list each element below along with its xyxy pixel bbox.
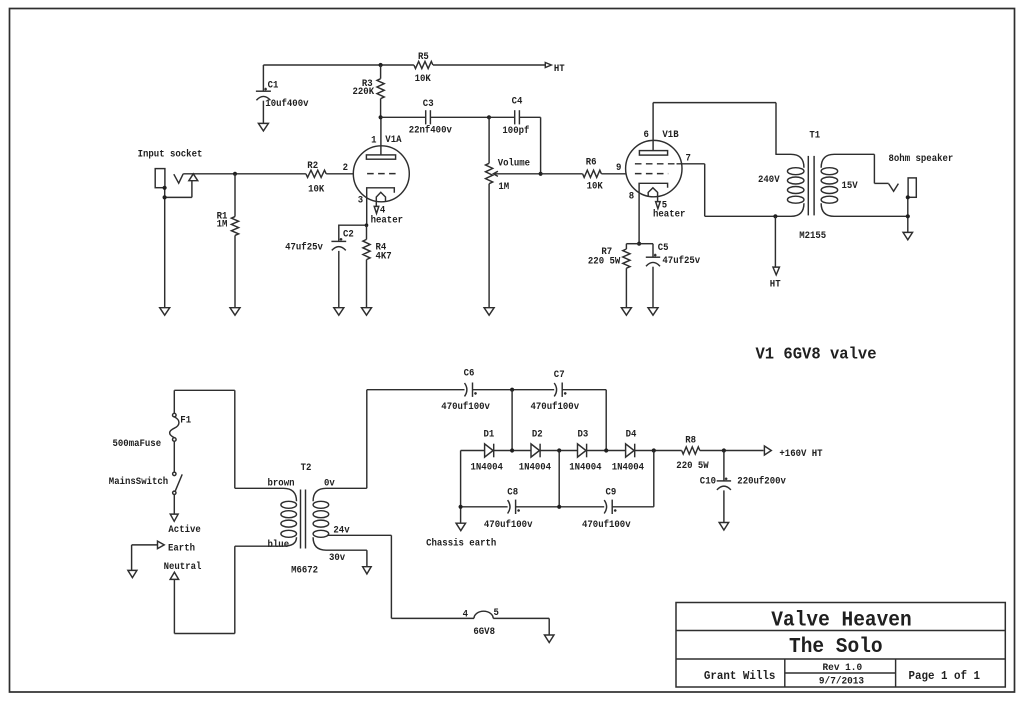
wire C7 right [562, 390, 606, 451]
svg-text:blue: blue [268, 539, 290, 551]
label Neutral [164, 561, 202, 573]
label 15V [842, 180, 859, 192]
svg-text:4K7: 4K7 [376, 251, 392, 263]
svg-text:7: 7 [686, 153, 691, 165]
V1B control grid [635, 173, 668, 175]
wire R2 to V1A grid [326, 173, 353, 175]
svg-text:F1: F1 [180, 415, 191, 427]
label Rev 1.0 [823, 662, 863, 674]
ground C1 [258, 123, 268, 130]
V1B heater filament [648, 188, 657, 202]
svg-text:470uf100v: 470uf100v [531, 401, 580, 413]
svg-text:8: 8 [629, 190, 634, 202]
label C2 [285, 229, 354, 254]
svg-text:HT: HT [554, 63, 565, 75]
node rail-R3 junction [379, 63, 383, 67]
svg-text:Grant Wills: Grant Wills [704, 670, 776, 683]
svg-text:30v: 30v [329, 552, 346, 564]
label C5 [658, 242, 701, 267]
fuse F1 [170, 413, 179, 441]
svg-text:Chassis earth: Chassis earth [426, 538, 496, 550]
resistor R5 [414, 61, 433, 68]
wire 24v tap [327, 535, 391, 618]
svg-text:D2: D2 [532, 428, 543, 440]
node D2-D3 junction [557, 448, 561, 452]
svg-text:T2: T2 [301, 462, 312, 474]
svg-text:22nf400v: 22nf400v [409, 125, 453, 137]
label R5 [415, 51, 432, 85]
wire D4-R8 [635, 450, 682, 452]
node C10 junction [722, 448, 726, 452]
node T1 primary bottom junction [773, 214, 777, 218]
capacitor C9 [604, 500, 616, 514]
capacitor C1 [256, 65, 271, 123]
resistor R1 [231, 174, 238, 308]
label Input socket [138, 148, 203, 160]
terminator Earth arrow [158, 541, 165, 549]
resistor R2 [306, 170, 326, 177]
wire C8 row left [461, 506, 508, 508]
svg-text:The Solo: The Solo [789, 636, 883, 659]
label 30v [329, 552, 346, 564]
V1A cathode [367, 188, 395, 225]
resistor R6 [583, 170, 602, 177]
node speaker return junction [906, 214, 910, 218]
potentiometer Volume [486, 117, 493, 307]
svg-text:C4: C4 [512, 96, 523, 108]
resistor R3 [377, 65, 384, 117]
wire C3 line [381, 116, 489, 118]
label T2 [301, 462, 312, 474]
ground R1 [230, 308, 240, 316]
wire C8C9 drop [558, 451, 560, 507]
label pin5 [494, 607, 499, 619]
svg-text:D4: D4 [626, 428, 637, 440]
V1B screen grid [635, 163, 677, 165]
label R8 [676, 434, 709, 472]
svg-text:6: 6 [644, 129, 649, 141]
svg-text:D1: D1 [484, 428, 495, 440]
svg-text:D3: D3 [578, 428, 589, 440]
label Page 1 of 1 [909, 670, 981, 683]
T1 primary winding 240V [775, 154, 804, 216]
node C8-C9 junction [557, 505, 561, 509]
terminator Active [170, 514, 178, 521]
label R7 [588, 246, 621, 267]
wire 0v to C6 [367, 389, 465, 391]
switch MainsSwitch [173, 472, 183, 494]
node speaker jack sleeve [906, 195, 910, 199]
input jack J1 [155, 169, 198, 308]
wire C9 right [612, 506, 654, 508]
title Valve Heaven [771, 610, 911, 633]
wire 30v stub [366, 550, 368, 567]
label Volume [498, 157, 530, 192]
svg-text:10K: 10K [415, 73, 432, 85]
label 6GV8 [473, 626, 495, 638]
node C8 left junction [459, 505, 463, 509]
svg-text:47uf25v: 47uf25v [285, 241, 323, 253]
wire D1-D2 [494, 450, 531, 452]
svg-text:HT: HT [770, 279, 781, 291]
svg-text:C3: C3 [423, 98, 434, 110]
terminator HT arrow top [545, 63, 551, 68]
svg-text:Earth: Earth [168, 543, 195, 555]
wire HT rail [263, 64, 545, 66]
wire wiper to R6 [541, 173, 583, 175]
label M6672 [291, 565, 318, 577]
T1 core [808, 156, 814, 216]
wire signal input [183, 173, 306, 175]
wire mains top [174, 390, 235, 413]
ground speaker [903, 232, 913, 239]
svg-text:1M: 1M [498, 181, 509, 193]
terminator +160V HT arrow [764, 446, 771, 455]
label V1B heater [653, 209, 685, 221]
terminator HT arrow down [773, 267, 780, 275]
label pin4 [463, 609, 468, 621]
svg-text:220 5W: 220 5W [588, 255, 621, 267]
svg-text:C6: C6 [464, 367, 475, 379]
label Chassis earth [426, 538, 496, 550]
wire earth [132, 545, 158, 571]
svg-text:47uf25v: 47uf25v [662, 255, 700, 267]
svg-text:500maFuse: 500maFuse [113, 438, 162, 450]
wire heater run right [493, 618, 549, 635]
label V1 6GV8 valve [756, 345, 877, 364]
ground input jack [160, 308, 170, 316]
svg-text:V1B: V1B [662, 129, 679, 141]
svg-text:1N4004: 1N4004 [569, 462, 601, 474]
svg-text:Input socket: Input socket [138, 148, 203, 160]
label R1 [217, 211, 228, 231]
wire switch to Active [173, 495, 175, 515]
wire C8-C9 [516, 506, 605, 508]
svg-text:220K: 220K [353, 86, 375, 98]
label T1 [809, 130, 820, 142]
svg-text:M6672: M6672 [291, 565, 318, 577]
label blue [268, 539, 290, 551]
V1B cathode [639, 183, 668, 243]
svg-text:1M: 1M [217, 219, 228, 231]
resistor R4 [363, 225, 370, 308]
node D1-D2 junction [510, 448, 514, 452]
wire C6C7 drop [511, 390, 513, 451]
label MainsSwitch [109, 476, 168, 488]
svg-text:C7: C7 [554, 369, 565, 381]
T1 secondary winding 15V [821, 154, 908, 216]
svg-text:240V: 240V [758, 174, 780, 186]
label 500maFuse [113, 438, 162, 450]
pentode V1B envelope [626, 140, 682, 196]
svg-text:V1 6GV8 valve: V1 6GV8 valve [756, 345, 877, 364]
label HT top [554, 63, 565, 75]
wire heater run left [391, 617, 474, 619]
wire D3-D4 [587, 450, 626, 452]
wire 0v riser [366, 390, 368, 489]
svg-text:470uf100v: 470uf100v [582, 519, 631, 531]
wire fuse to switch [173, 441, 175, 472]
diode D1 [485, 444, 494, 458]
V1A anode plate [366, 117, 395, 159]
svg-text:T1: T1 [809, 130, 820, 142]
triode V1A envelope [353, 146, 409, 202]
svg-text:C9: C9 [606, 486, 617, 498]
heater 6GV8 pins 4-5 [474, 611, 493, 618]
node jack sleeve [163, 186, 167, 190]
wire R6 to V1B grid [601, 173, 625, 175]
node D3-D4 junction [604, 448, 608, 452]
svg-text:C5: C5 [658, 242, 669, 254]
svg-text:M2155: M2155 [799, 230, 826, 242]
svg-text:1N4004: 1N4004 [519, 462, 551, 474]
label C3 [409, 98, 453, 137]
svg-text:1N4004: 1N4004 [471, 462, 503, 474]
svg-text:6GV8: 6GV8 [473, 626, 495, 638]
svg-text:100pf: 100pf [502, 125, 529, 137]
svg-text:1N4004: 1N4004 [612, 462, 644, 474]
label M2155 [799, 230, 826, 242]
node C3-C4-pot junction [487, 115, 491, 119]
ground Volume [484, 308, 494, 316]
label Active [168, 524, 200, 536]
resistor R8 [682, 447, 700, 454]
wire HT feed [774, 216, 776, 267]
T2 primary winding [235, 488, 297, 546]
diode D4 [626, 444, 635, 458]
svg-text:heater: heater [653, 209, 685, 221]
label C6 [441, 367, 490, 413]
label C4 [502, 96, 529, 138]
svg-text:+160V HT: +160V HT [779, 448, 822, 460]
svg-text:10uf400v: 10uf400v [265, 98, 309, 110]
V1A grid [367, 173, 396, 175]
node wiper-C4 junction [539, 172, 543, 176]
svg-text:1: 1 [371, 134, 376, 146]
label D4 [612, 428, 644, 473]
svg-text:R5: R5 [418, 51, 429, 63]
svg-text:C8: C8 [507, 486, 518, 498]
title The Solo [789, 636, 883, 659]
label R6 [586, 157, 604, 193]
svg-text:Valve Heaven: Valve Heaven [771, 610, 911, 633]
svg-text:MainsSwitch: MainsSwitch [109, 476, 168, 488]
ground C10 [719, 523, 729, 531]
diode D3 [578, 444, 587, 458]
terminator 30v [363, 567, 372, 574]
V1B heater pin arrow [656, 202, 661, 209]
label Earth [168, 543, 195, 555]
label date [819, 675, 864, 687]
ground R4 [362, 308, 372, 316]
terminator Neutral arrow [170, 572, 179, 579]
label D3 [569, 428, 601, 473]
capacitor C5 [639, 244, 660, 308]
svg-text:5: 5 [494, 607, 499, 619]
svg-text:8ohm speaker: 8ohm speaker [889, 153, 954, 165]
svg-text:2: 2 [343, 162, 348, 174]
label V1A pins [343, 134, 402, 217]
label C8 [484, 486, 533, 531]
svg-text:9: 9 [616, 162, 621, 174]
svg-text:C1: C1 [268, 79, 279, 91]
label 240V [758, 174, 780, 186]
capacitor C4 [515, 110, 520, 124]
svg-text:Page 1 of 1: Page 1 of 1 [909, 670, 981, 683]
label C10 [700, 476, 787, 488]
node R3-C3-anode junction [379, 115, 383, 119]
label +160V HT [779, 448, 822, 460]
ground chassis earth [456, 507, 466, 531]
label 0v [324, 478, 335, 490]
wire active feed [234, 390, 236, 488]
ground heater [544, 635, 554, 643]
label brown [268, 478, 295, 490]
label Grant Wills [704, 670, 776, 683]
wire V1B anode to T1 [653, 103, 776, 155]
ground R7 [621, 308, 631, 316]
svg-text:10K: 10K [587, 181, 604, 193]
label C7 [531, 369, 580, 413]
svg-text:R8: R8 [685, 434, 696, 446]
ground C2 [334, 308, 344, 316]
ground earth [128, 570, 137, 577]
wire C6 to C7 [473, 389, 555, 391]
svg-text:Volume: Volume [498, 157, 530, 169]
capacitor C7 [554, 383, 566, 397]
label V1A heater [371, 214, 403, 226]
svg-text:R6: R6 [586, 157, 597, 169]
label HT bottom [770, 279, 781, 291]
capacitor C3 [426, 110, 431, 124]
svg-text:4: 4 [463, 609, 468, 621]
svg-text:10K: 10K [308, 184, 325, 196]
label R3 [353, 78, 375, 98]
node jack sleeve 2 [163, 195, 167, 199]
V1A heater filament [376, 192, 385, 206]
title block frame [676, 603, 1005, 688]
label D2 [519, 428, 551, 473]
V1B anode plate [639, 103, 667, 156]
wire C4 line [489, 117, 541, 174]
resistor R7 [623, 244, 639, 308]
wire neutral [174, 546, 234, 633]
label C9 [582, 486, 631, 531]
node D4-R8 junction [652, 448, 656, 452]
svg-text:C2: C2 [343, 229, 354, 241]
label F1 [180, 415, 191, 427]
svg-text:470uf100v: 470uf100v [441, 401, 490, 413]
label R4 [376, 242, 392, 263]
node cathode-C2 tee [365, 223, 369, 227]
svg-text:220 5W: 220 5W [676, 460, 709, 472]
svg-text:0v: 0v [324, 478, 335, 490]
wire V1B pin7 to T1 [677, 164, 776, 217]
T2 secondary winding [313, 488, 367, 550]
T2 core [301, 490, 306, 549]
diode D2 [531, 444, 540, 458]
wire D2-D3 [540, 450, 577, 452]
wire diode row left [461, 451, 485, 507]
node pin8 junction [637, 242, 641, 246]
Volume wiper [493, 171, 540, 176]
wire R8 to HT [700, 450, 764, 452]
svg-text:15V: 15V [842, 180, 859, 192]
svg-text:Neutral: Neutral [164, 561, 202, 573]
ground C5 [648, 308, 658, 316]
V1A heater pin arrow [374, 206, 379, 213]
svg-text:heater: heater [371, 214, 403, 226]
capacitor C2 [331, 225, 366, 308]
wire C9 right riser [653, 451, 655, 507]
capacitor C10 [717, 451, 731, 523]
svg-text:9/7/2013: 9/7/2013 [819, 675, 864, 687]
speaker jack [874, 154, 916, 232]
label D1 [471, 428, 503, 473]
capacitor C8 [508, 500, 520, 514]
svg-text:V1A: V1A [385, 134, 402, 146]
svg-text:Rev 1.0: Rev 1.0 [823, 662, 863, 674]
label R2 [307, 160, 325, 195]
svg-text:R2: R2 [307, 160, 318, 172]
svg-text:C10: C10 [700, 476, 716, 488]
svg-text:Active: Active [168, 524, 200, 536]
capacitor C6 [465, 383, 477, 397]
label V1B pins [616, 129, 691, 212]
svg-text:3: 3 [358, 195, 363, 207]
label 8ohm speaker [889, 153, 954, 165]
label 24v [333, 525, 350, 537]
label C1 [265, 79, 309, 109]
node R1 tap [233, 172, 237, 176]
svg-text:220uf200v: 220uf200v [737, 476, 786, 488]
svg-text:470uf100v: 470uf100v [484, 519, 533, 531]
node C6-C7 junction [510, 388, 514, 392]
